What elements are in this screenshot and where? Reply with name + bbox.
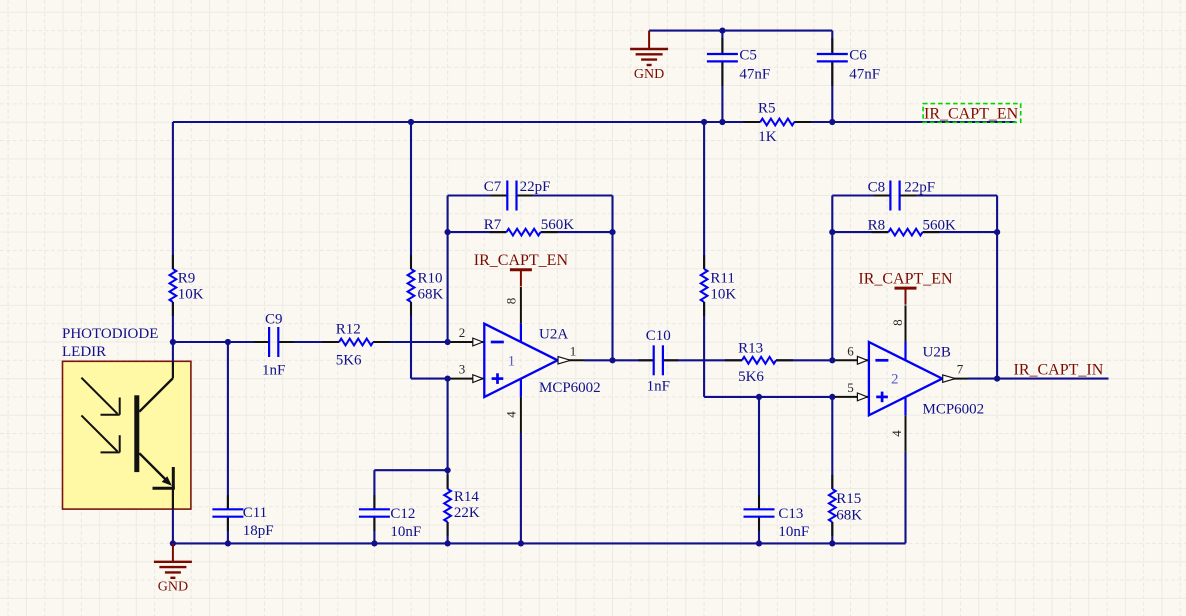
svg-text:C9: C9	[265, 311, 283, 327]
svg-text:C5: C5	[739, 47, 757, 63]
svg-text:IR_CAPT_EN: IR_CAPT_EN	[924, 106, 1019, 123]
svg-text:22pF: 22pF	[904, 179, 935, 195]
svg-text:U2A: U2A	[539, 327, 568, 343]
svg-text:7: 7	[957, 362, 964, 377]
svg-text:18pF: 18pF	[243, 523, 274, 539]
svg-text:R11: R11	[710, 270, 734, 286]
svg-text:U2B: U2B	[923, 344, 951, 360]
svg-text:IR_CAPT_EN: IR_CAPT_EN	[474, 252, 569, 269]
svg-text:R12: R12	[336, 322, 361, 338]
svg-text:C12: C12	[390, 506, 415, 522]
svg-text:22K: 22K	[454, 505, 480, 521]
svg-text:47nF: 47nF	[849, 66, 880, 82]
svg-text:5K6: 5K6	[336, 352, 362, 368]
svg-text:C10: C10	[646, 328, 671, 344]
svg-text:3: 3	[459, 362, 466, 377]
svg-text:MCP6002: MCP6002	[539, 380, 601, 396]
svg-text:IR_CAPT_EN: IR_CAPT_EN	[858, 270, 953, 287]
svg-text:MCP6002: MCP6002	[923, 401, 985, 417]
svg-text:10nF: 10nF	[778, 524, 809, 540]
svg-text:1: 1	[508, 353, 516, 369]
svg-text:4: 4	[504, 411, 519, 418]
svg-text:10nF: 10nF	[390, 524, 421, 540]
svg-text:C8: C8	[868, 179, 886, 195]
svg-text:10K: 10K	[710, 287, 736, 303]
svg-text:LEDIR: LEDIR	[62, 344, 106, 360]
svg-text:PHOTODIODE: PHOTODIODE	[62, 326, 158, 342]
svg-text:1: 1	[570, 343, 577, 358]
svg-text:GND: GND	[634, 67, 664, 82]
svg-text:R13: R13	[738, 341, 763, 357]
svg-text:560K: 560K	[541, 217, 575, 233]
svg-text:GND: GND	[158, 580, 188, 595]
svg-text:560K: 560K	[923, 217, 957, 233]
svg-text:C11: C11	[243, 505, 267, 521]
svg-text:R9: R9	[178, 270, 196, 286]
svg-text:C13: C13	[778, 506, 803, 522]
svg-text:R7: R7	[484, 217, 502, 233]
svg-text:R15: R15	[836, 491, 861, 507]
svg-text:6: 6	[847, 343, 854, 358]
svg-text:C6: C6	[849, 47, 867, 63]
svg-text:8: 8	[504, 298, 519, 305]
svg-text:1K: 1K	[758, 129, 777, 145]
svg-text:R5: R5	[758, 101, 776, 117]
svg-text:47nF: 47nF	[739, 66, 770, 82]
svg-text:IR_CAPT_IN: IR_CAPT_IN	[1014, 362, 1104, 379]
svg-text:10K: 10K	[178, 287, 204, 303]
svg-text:R8: R8	[868, 217, 886, 233]
svg-text:68K: 68K	[418, 287, 444, 303]
svg-text:8: 8	[890, 319, 905, 326]
svg-text:5: 5	[847, 380, 854, 395]
svg-text:5K6: 5K6	[738, 369, 764, 385]
svg-text:2: 2	[891, 372, 899, 388]
svg-text:4: 4	[889, 430, 904, 437]
svg-text:2: 2	[459, 325, 466, 340]
svg-text:R10: R10	[418, 270, 443, 286]
svg-text:1nF: 1nF	[647, 378, 670, 394]
svg-text:R14: R14	[454, 489, 480, 505]
svg-text:68K: 68K	[836, 508, 862, 524]
svg-text:1nF: 1nF	[262, 363, 285, 379]
svg-text:C7: C7	[484, 179, 502, 195]
svg-text:22pF: 22pF	[520, 179, 551, 195]
